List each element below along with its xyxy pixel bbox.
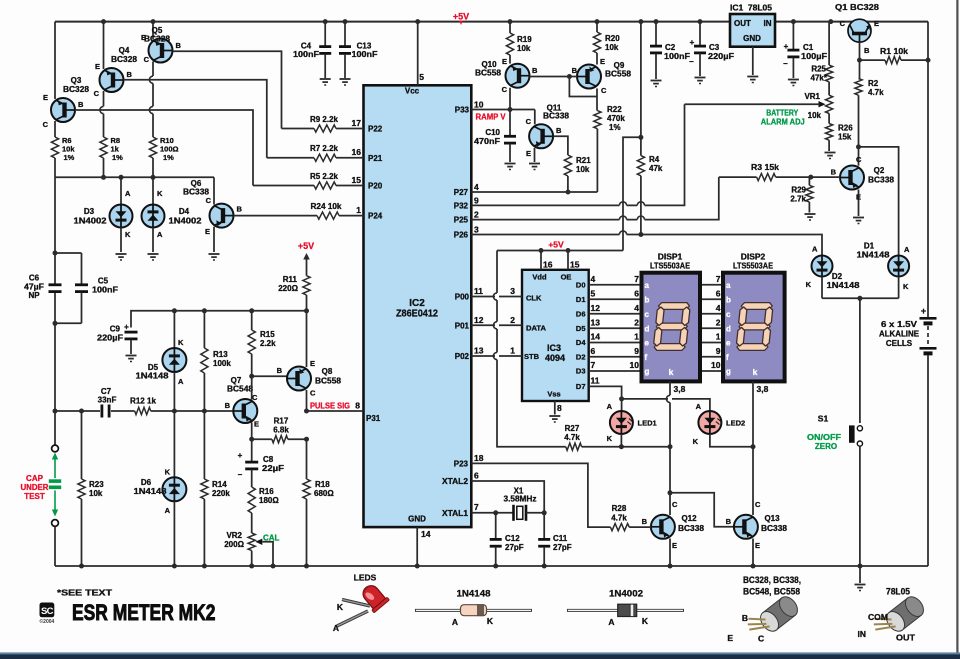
svg-text:+: + bbox=[784, 42, 789, 51]
wire IC3 Vdd pin 16 bbox=[541, 251, 553, 270]
svg-text:P31: P31 bbox=[366, 414, 381, 423]
wire segment e IC3 to DISP1 bbox=[589, 332, 642, 343]
svg-text:K: K bbox=[903, 282, 909, 291]
svg-text:1N4002: 1N4002 bbox=[74, 217, 108, 226]
svg-text:B: B bbox=[642, 517, 648, 526]
wire segment d DISP1 to DISP2 bbox=[700, 317, 723, 328]
svg-text:27pF: 27pF bbox=[553, 543, 572, 552]
svg-text:1N4148: 1N4148 bbox=[136, 372, 170, 381]
svg-text:e: e bbox=[726, 339, 731, 348]
svg-text:B: B bbox=[237, 205, 243, 214]
svg-text:10: 10 bbox=[474, 100, 484, 110]
wire ground bus bbox=[55, 564, 928, 569]
svg-text:A: A bbox=[333, 623, 339, 633]
svg-text:B: B bbox=[556, 126, 562, 135]
svg-text:P02: P02 bbox=[455, 352, 470, 361]
svg-text:7: 7 bbox=[634, 274, 639, 284]
svg-text:2: 2 bbox=[510, 315, 515, 325]
svg-text:K: K bbox=[125, 230, 131, 239]
wire segment b IC3 to DISP1 bbox=[589, 289, 642, 300]
LED1 bbox=[607, 402, 657, 443]
svg-text:P32: P32 bbox=[454, 202, 469, 211]
svg-text:10k: 10k bbox=[808, 111, 822, 120]
svg-text:BC558: BC558 bbox=[605, 70, 632, 79]
svg-text:OUT: OUT bbox=[896, 633, 916, 643]
label BATTERY ALARM ADJ bbox=[761, 109, 805, 127]
wire P27 pin 4 bbox=[471, 182, 597, 195]
svg-text:–: – bbox=[783, 59, 788, 68]
wire Q10 base to Q9 base bbox=[530, 74, 578, 79]
svg-text:Z86E0412: Z86E0412 bbox=[396, 309, 438, 320]
resistor R1 bbox=[860, 47, 931, 64]
svg-text:b: b bbox=[726, 296, 731, 305]
transistor Q13 bbox=[726, 500, 788, 550]
svg-text:OE: OE bbox=[561, 273, 572, 282]
svg-text:A: A bbox=[178, 377, 184, 386]
svg-text:1%: 1% bbox=[163, 153, 174, 162]
wire left vertical 2 (rail to Q4/R8) bbox=[100, 22, 106, 178]
svg-text:11: 11 bbox=[474, 286, 483, 296]
svg-text:E: E bbox=[874, 19, 879, 28]
svg-text:P23: P23 bbox=[454, 459, 469, 468]
wire P00 to CLK bbox=[471, 286, 522, 297]
svg-text:CAP: CAP bbox=[26, 474, 44, 483]
svg-text:b: b bbox=[645, 296, 650, 305]
svg-text:680Ω: 680Ω bbox=[314, 489, 334, 498]
svg-text:BC328: BC328 bbox=[111, 55, 138, 64]
svg-text:R14: R14 bbox=[212, 480, 227, 489]
switch S1 bbox=[807, 414, 863, 567]
svg-text:S1: S1 bbox=[818, 414, 829, 424]
svg-text:R12 1k: R12 1k bbox=[130, 397, 157, 406]
svg-text:C11: C11 bbox=[553, 534, 568, 543]
svg-text:CELLS: CELLS bbox=[886, 339, 913, 348]
transistor Q5 bbox=[141, 26, 182, 64]
wire DISP2 pin 3,8 cathode bbox=[753, 381, 769, 446]
wire P25 pin 2 bbox=[471, 177, 719, 222]
resistor R13 bbox=[201, 311, 232, 411]
wire IC2 GND pin 14 bbox=[415, 527, 431, 568]
svg-text:6: 6 bbox=[591, 346, 596, 356]
svg-text:©2004: ©2004 bbox=[39, 618, 54, 625]
svg-text:d: d bbox=[726, 324, 731, 333]
resistor R5 bbox=[253, 172, 364, 189]
svg-text:BC328: BC328 bbox=[63, 85, 90, 94]
svg-text:12: 12 bbox=[474, 315, 484, 325]
svg-text:8: 8 bbox=[355, 401, 360, 411]
title ESR METER MK2 bbox=[72, 600, 216, 625]
svg-text:K: K bbox=[178, 338, 184, 347]
wire P01 to DATA bbox=[471, 315, 522, 325]
label CAL bbox=[263, 534, 280, 543]
svg-text:E: E bbox=[310, 359, 315, 368]
svg-text:GND: GND bbox=[408, 515, 426, 524]
resistor R2 bbox=[855, 79, 884, 166]
svg-text:IC1 78L05: IC1 78L05 bbox=[730, 4, 773, 13]
svg-text:4: 4 bbox=[634, 303, 639, 313]
svg-text:P00: P00 bbox=[455, 293, 470, 302]
svg-text:LEDS: LEDS bbox=[354, 573, 377, 583]
svg-text:C: C bbox=[310, 389, 316, 398]
svg-text:C: C bbox=[672, 500, 678, 509]
wire XTAL1 pin 7 bbox=[471, 502, 513, 515]
svg-text:BC338: BC338 bbox=[868, 176, 895, 185]
svg-text:d: d bbox=[645, 324, 650, 333]
transistor Q9 bbox=[572, 57, 632, 95]
svg-text:A: A bbox=[157, 230, 163, 239]
regulator 78L05 package icon bbox=[858, 587, 928, 643]
svg-text:D6: D6 bbox=[141, 478, 152, 487]
svg-text:16: 16 bbox=[352, 147, 362, 157]
svg-text:LED2: LED2 bbox=[726, 419, 745, 428]
svg-text:78L05: 78L05 bbox=[886, 587, 911, 598]
svg-text:R19: R19 bbox=[517, 35, 532, 44]
svg-text:13: 13 bbox=[591, 317, 601, 327]
capacitor C1 bbox=[783, 22, 827, 86]
label CAP UNDER TEST bbox=[21, 474, 49, 501]
svg-text:R7 2.2k: R7 2.2k bbox=[310, 144, 339, 153]
svg-text:BC338: BC338 bbox=[761, 524, 788, 533]
op-amp IC3 4094 shift register bbox=[522, 270, 589, 401]
svg-text:1: 1 bbox=[356, 205, 361, 215]
crystal X1 3.58MHz bbox=[504, 487, 547, 521]
op-amp IC2 Z86E0412 microcontroller bbox=[364, 85, 472, 527]
resistor R19 bbox=[506, 22, 532, 64]
svg-text:10k: 10k bbox=[576, 165, 590, 174]
capacitor C7 bbox=[55, 387, 135, 418]
svg-text:PULSE SIG: PULSE SIG bbox=[310, 402, 350, 411]
wire D1 D2 cathode join to S1 bbox=[822, 296, 899, 423]
svg-text:D1: D1 bbox=[576, 295, 586, 304]
svg-text:C: C bbox=[758, 634, 764, 644]
diode D6 bbox=[134, 411, 187, 569]
wire segment c DISP1 to DISP2 bbox=[700, 303, 723, 314]
svg-text:C1: C1 bbox=[803, 43, 814, 52]
svg-text:VR2: VR2 bbox=[226, 531, 242, 540]
wire Q8 emitter from rail bbox=[306, 311, 308, 367]
svg-text:E: E bbox=[856, 193, 861, 202]
wire P23 pin 18 to R28 bbox=[471, 453, 610, 527]
svg-text:R2: R2 bbox=[868, 79, 879, 88]
svg-text:D3: D3 bbox=[84, 207, 95, 216]
svg-text:1: 1 bbox=[716, 332, 721, 342]
svg-text:Q13: Q13 bbox=[764, 514, 780, 523]
wire DISP1 cathode to Q12 collector bbox=[668, 447, 673, 515]
svg-text:Vss: Vss bbox=[547, 390, 560, 399]
svg-text:2: 2 bbox=[716, 317, 721, 327]
svg-text:5: 5 bbox=[419, 72, 424, 82]
potentiometer VR2 bbox=[224, 531, 275, 569]
svg-text:3: 3 bbox=[510, 286, 515, 296]
svg-text:IN: IN bbox=[764, 19, 772, 28]
svg-text:C: C bbox=[755, 500, 761, 509]
svg-text:2: 2 bbox=[634, 317, 639, 327]
capacitor C12 bbox=[490, 513, 524, 569]
page right border bbox=[956, 0, 958, 653]
svg-text:C: C bbox=[252, 393, 258, 402]
svg-text:1%: 1% bbox=[64, 153, 75, 162]
svg-text:16: 16 bbox=[543, 260, 553, 270]
wire IC3 OE pin 15 bbox=[568, 251, 580, 270]
svg-text:4.7k: 4.7k bbox=[868, 88, 884, 97]
capacitor C2 bbox=[650, 22, 690, 87]
svg-text:18: 18 bbox=[474, 453, 484, 463]
wire left vertical 1 (rail to Q3/R6) bbox=[54, 22, 56, 178]
svg-text:C12: C12 bbox=[505, 534, 520, 543]
svg-text:Q12: Q12 bbox=[681, 514, 697, 523]
svg-text:+: + bbox=[238, 451, 243, 460]
svg-text:220Ω: 220Ω bbox=[278, 284, 298, 293]
svg-text:C: C bbox=[43, 120, 49, 129]
wire P02 to STB bbox=[471, 346, 522, 357]
resistor R10 bbox=[149, 136, 178, 162]
svg-text:C: C bbox=[526, 117, 532, 126]
svg-text:1%: 1% bbox=[112, 153, 123, 162]
resistor R18 bbox=[303, 439, 334, 568]
svg-text:ALARM ADJ: ALARM ADJ bbox=[761, 117, 805, 126]
svg-text:CLK: CLK bbox=[526, 294, 542, 303]
svg-text:3.58MHz: 3.58MHz bbox=[504, 495, 537, 504]
svg-text:47k: 47k bbox=[649, 164, 663, 173]
svg-text:BC558: BC558 bbox=[475, 69, 502, 78]
svg-text:P33: P33 bbox=[455, 106, 470, 115]
svg-text:LTS5503AE: LTS5503AE bbox=[733, 261, 773, 271]
svg-text:C: C bbox=[502, 85, 508, 94]
bottom banner bar bbox=[0, 652, 960, 659]
svg-text:D2: D2 bbox=[576, 352, 586, 361]
svg-text:220k: 220k bbox=[212, 489, 230, 498]
transistor Q10 bbox=[475, 57, 538, 94]
svg-text:IC2: IC2 bbox=[409, 298, 425, 309]
svg-text:C8: C8 bbox=[263, 455, 274, 464]
svg-text:E: E bbox=[43, 93, 48, 102]
svg-text:–: – bbox=[689, 57, 694, 66]
svg-text:R1 10k: R1 10k bbox=[880, 47, 909, 56]
svg-text:Q2: Q2 bbox=[874, 166, 885, 175]
svg-text:B: B bbox=[532, 66, 538, 75]
wire IC3 Vss pin 8 bbox=[549, 401, 562, 422]
svg-text:B: B bbox=[225, 401, 231, 410]
svg-text:17: 17 bbox=[352, 118, 362, 128]
svg-text:1N4148: 1N4148 bbox=[134, 487, 168, 496]
svg-text:A: A bbox=[607, 402, 613, 411]
svg-text:f: f bbox=[645, 353, 648, 362]
transistor Q1 (horizontal PNP) bbox=[835, 2, 879, 55]
svg-text:A: A bbox=[608, 617, 614, 627]
svg-text:2.2k: 2.2k bbox=[260, 339, 276, 348]
svg-text:A: A bbox=[165, 506, 171, 515]
svg-text:A: A bbox=[452, 617, 458, 627]
wire Q2 collector to D1 bbox=[859, 147, 899, 255]
svg-text:C9: C9 bbox=[110, 325, 121, 334]
svg-text:B: B bbox=[78, 100, 84, 109]
svg-text:15: 15 bbox=[570, 260, 580, 270]
wire segment d IC3 to DISP1 bbox=[589, 317, 642, 328]
transistor Q6 bbox=[183, 177, 243, 260]
transistor TO-92 package icon BC328/338/548/558 bbox=[727, 575, 801, 644]
svg-text:470k: 470k bbox=[607, 114, 625, 123]
svg-text:B: B bbox=[864, 46, 870, 55]
svg-text:c: c bbox=[726, 310, 731, 319]
svg-text:+5V: +5V bbox=[298, 241, 314, 251]
svg-text:1N4002: 1N4002 bbox=[609, 589, 643, 600]
svg-text:2.7k: 2.7k bbox=[790, 195, 806, 204]
svg-text:B: B bbox=[726, 517, 732, 526]
svg-text:+5V: +5V bbox=[548, 239, 564, 249]
svg-text:R9 2.2k: R9 2.2k bbox=[310, 115, 339, 124]
svg-text:12: 12 bbox=[591, 303, 601, 313]
label +5V IC3 bbox=[548, 239, 564, 249]
wire left vertical 3 (rail to Q5/R10) bbox=[149, 22, 155, 178]
svg-text:B: B bbox=[572, 66, 578, 75]
svg-text:200Ω: 200Ω bbox=[224, 540, 244, 549]
svg-text:4: 4 bbox=[591, 274, 596, 284]
svg-text:P22: P22 bbox=[368, 125, 383, 134]
resistor R12 bbox=[130, 397, 233, 415]
svg-text:Q8: Q8 bbox=[322, 367, 333, 376]
wire P33 RAMP V bbox=[471, 88, 535, 125]
svg-text:P01: P01 bbox=[455, 321, 470, 330]
svg-text:6: 6 bbox=[716, 289, 721, 299]
diode D5 bbox=[136, 311, 187, 411]
svg-text:K: K bbox=[806, 280, 812, 289]
ground S1 bbox=[855, 566, 866, 591]
svg-text:LED1: LED1 bbox=[638, 419, 657, 428]
wire segment g DISP1 to DISP2 bbox=[700, 360, 723, 371]
wire Q3 base to R5 bbox=[75, 110, 253, 186]
transistor Q4 bbox=[94, 46, 138, 98]
wire +5V drop to R27 bbox=[493, 251, 565, 447]
wire upper horizontal bus y=177 bbox=[55, 175, 214, 180]
resistor R20 bbox=[593, 22, 620, 65]
svg-text:CAL: CAL bbox=[263, 534, 280, 543]
resistor R8 bbox=[100, 136, 123, 162]
svg-text:BC338: BC338 bbox=[543, 112, 570, 121]
svg-text:R16: R16 bbox=[259, 487, 274, 496]
svg-text:D2: D2 bbox=[832, 272, 843, 281]
svg-text:B: B bbox=[831, 168, 837, 177]
Silicon Chip logo bbox=[39, 603, 54, 625]
svg-text:R13: R13 bbox=[213, 350, 228, 359]
svg-text:6 x 1.5V: 6 x 1.5V bbox=[881, 320, 918, 329]
resistor R4 bbox=[637, 137, 663, 234]
svg-text:1: 1 bbox=[510, 346, 515, 356]
svg-text:IN: IN bbox=[858, 629, 867, 639]
svg-text:VR1: VR1 bbox=[804, 92, 820, 101]
svg-text:15: 15 bbox=[352, 175, 362, 185]
svg-text:9: 9 bbox=[474, 195, 479, 205]
svg-text:8: 8 bbox=[557, 403, 562, 413]
svg-text:K: K bbox=[642, 616, 649, 626]
7-segment display DISP1 LTS5503AE bbox=[642, 252, 701, 382]
svg-text:13: 13 bbox=[474, 346, 484, 356]
resistor R6 bbox=[51, 136, 75, 162]
svg-text:IC3: IC3 bbox=[547, 343, 561, 353]
resistor R14 bbox=[201, 411, 231, 569]
wire Q1 base node bbox=[857, 42, 862, 78]
LED package icon bbox=[333, 581, 390, 633]
capacitor C11 bbox=[538, 513, 572, 569]
svg-text:9: 9 bbox=[716, 346, 721, 356]
wire D7 pin 11 to LED anodes bbox=[589, 376, 710, 411]
transistor Q7 bbox=[225, 376, 259, 429]
svg-text:7: 7 bbox=[716, 274, 721, 284]
svg-text:P20: P20 bbox=[368, 182, 383, 191]
wire segment a IC3 to DISP1 bbox=[589, 274, 642, 285]
svg-text:B: B bbox=[127, 70, 133, 79]
resistor R29 bbox=[790, 177, 815, 220]
wire battery positive rail bbox=[927, 22, 929, 316]
svg-text:D4: D4 bbox=[576, 338, 586, 347]
svg-text:BC328: BC328 bbox=[144, 35, 171, 44]
svg-text:6: 6 bbox=[474, 471, 479, 481]
capacitor C5 bbox=[55, 253, 118, 323]
wire Q13 collector bbox=[752, 447, 754, 515]
svg-text:R24 10k: R24 10k bbox=[311, 202, 343, 211]
transistor Q2 bbox=[840, 155, 895, 224]
svg-text:K: K bbox=[487, 616, 494, 626]
wire LED2 cathode node bbox=[710, 434, 756, 449]
svg-text:A: A bbox=[696, 402, 702, 411]
svg-text:33nF: 33nF bbox=[98, 396, 117, 405]
svg-text:BC328, BC338,: BC328, BC338, bbox=[743, 575, 801, 586]
svg-text:A: A bbox=[812, 245, 818, 254]
svg-text:D6: D6 bbox=[576, 309, 586, 318]
svg-text:2: 2 bbox=[474, 210, 479, 220]
svg-text:BC338: BC338 bbox=[678, 524, 705, 533]
svg-text:6.8k: 6.8k bbox=[273, 426, 289, 435]
svg-text:DATA: DATA bbox=[526, 323, 547, 332]
svg-text:XTAL2: XTAL2 bbox=[442, 477, 469, 486]
wire segment f IC3 to DISP1 bbox=[589, 346, 642, 357]
wire segment b DISP1 to DISP2 bbox=[700, 289, 723, 300]
svg-text:4.7k: 4.7k bbox=[611, 514, 627, 523]
svg-text:1: 1 bbox=[634, 332, 639, 342]
svg-text:R28: R28 bbox=[612, 504, 627, 513]
svg-text:R23: R23 bbox=[89, 480, 104, 489]
resistor R17 bbox=[252, 417, 309, 443]
svg-text:R17: R17 bbox=[274, 417, 289, 426]
wire LED1 cathode node bbox=[619, 434, 673, 449]
svg-text:10k: 10k bbox=[605, 43, 619, 52]
svg-text:B: B bbox=[176, 41, 182, 50]
capacitor C6 bbox=[24, 274, 62, 301]
svg-text:D0: D0 bbox=[576, 280, 586, 289]
svg-text:100µF: 100µF bbox=[801, 52, 827, 61]
svg-text:R20: R20 bbox=[605, 34, 620, 43]
resistor R11 bbox=[278, 275, 310, 313]
svg-text:C: C bbox=[206, 196, 212, 205]
svg-text:NP: NP bbox=[28, 291, 40, 300]
node cap under test terminal bottom bbox=[52, 520, 59, 566]
wire XTAL2 pin 6 bbox=[471, 471, 544, 513]
svg-text:3,8: 3,8 bbox=[757, 384, 769, 394]
wire segment c IC3 to DISP1 bbox=[589, 303, 642, 314]
svg-text:*SEE TEXT: *SEE TEXT bbox=[57, 588, 113, 598]
wire IC2 Vcc pin 5 bbox=[418, 22, 425, 86]
wire pulse block top rail bbox=[132, 308, 307, 313]
svg-text:4: 4 bbox=[474, 182, 479, 192]
svg-text:R15: R15 bbox=[260, 330, 275, 339]
svg-text:4: 4 bbox=[716, 303, 721, 313]
capacitor C10 bbox=[474, 110, 516, 170]
svg-text:E: E bbox=[600, 57, 605, 66]
svg-text:B: B bbox=[277, 366, 283, 375]
svg-text:R4: R4 bbox=[649, 155, 660, 164]
svg-text:Q4: Q4 bbox=[119, 46, 130, 55]
svg-text:Q1 BC328: Q1 BC328 bbox=[835, 2, 879, 12]
svg-text:100k: 100k bbox=[213, 359, 231, 368]
